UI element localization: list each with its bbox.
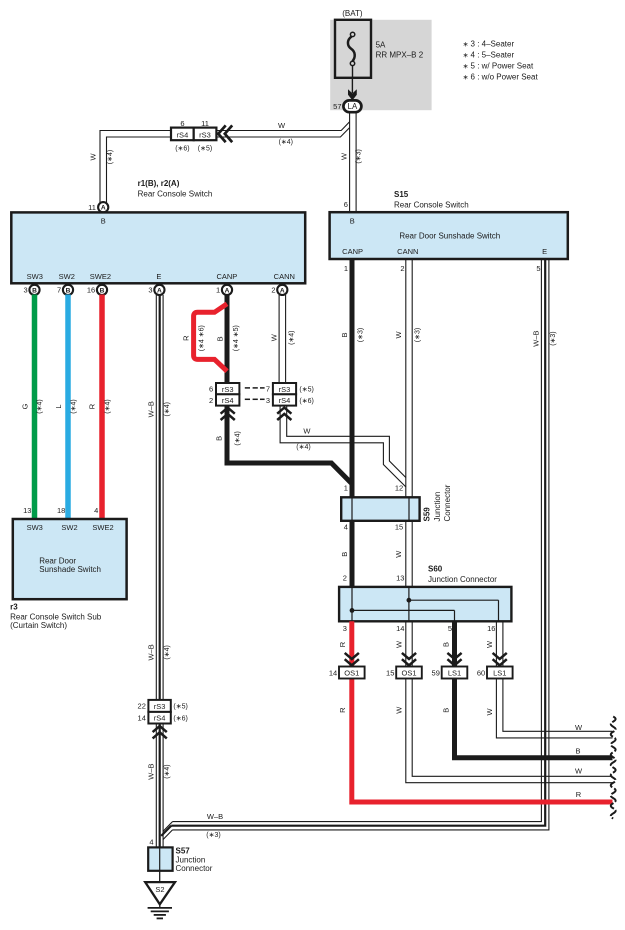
svg-text:(∗4): (∗4) [164, 764, 171, 778]
svg-text:3: 3 [343, 624, 347, 633]
svg-text:R: R [338, 707, 347, 713]
svg-text:Sunshade Switch: Sunshade Switch [39, 565, 101, 574]
svg-text:RR MPX–B 2: RR MPX–B 2 [376, 51, 424, 60]
svg-text:2: 2 [209, 396, 213, 405]
svg-text:SWE2: SWE2 [92, 523, 113, 532]
svg-text:B: B [442, 708, 451, 713]
svg-text:Connector: Connector [176, 864, 213, 873]
svg-text:A: A [225, 287, 230, 294]
svg-text:SWE2: SWE2 [90, 272, 111, 281]
svg-text:2: 2 [343, 574, 347, 583]
fuse 5A RR MPX-B 2 [335, 20, 424, 79]
svg-text:7: 7 [57, 286, 61, 295]
svg-text:(∗3): (∗3) [414, 328, 421, 342]
wire W from S60 pin 14 down and right [406, 621, 613, 782]
svg-text:Junction Connector: Junction Connector [428, 575, 497, 584]
connector rS4 pin 14 [138, 712, 188, 724]
svg-text:CANP: CANP [342, 247, 363, 256]
svg-text:r3: r3 [10, 602, 18, 611]
svg-text:W: W [270, 333, 279, 341]
connector rS3 pin 22 [138, 700, 188, 712]
svg-text:W: W [485, 640, 494, 648]
wire W-B from S15 pin 5 down [171, 259, 549, 830]
svg-text:∗ 4 : 5–Seater: ∗ 4 : 5–Seater [463, 51, 515, 60]
break squiggle over wire ends [611, 717, 616, 819]
svg-text:B: B [340, 552, 349, 557]
bottom pin labels inside r1 box [27, 272, 295, 281]
svg-text:W: W [303, 427, 311, 436]
svg-text:S59: S59 [423, 507, 432, 522]
svg-text:B: B [101, 217, 106, 226]
junction of horizontal W-B into vertical near S57 [161, 822, 172, 840]
connector rS3 pin 7 [266, 383, 314, 394]
svg-text:rS4: rS4 [279, 396, 291, 405]
svg-text:OS1: OS1 [401, 669, 416, 678]
chevrons down above OS1/LS1 [345, 653, 359, 665]
connector OS1 pin 15 [386, 667, 422, 679]
svg-text:rS4: rS4 [222, 396, 234, 405]
svg-text:SW3: SW3 [27, 272, 43, 281]
svg-text:B: B [100, 287, 105, 294]
arrow from fuse to connector LA [351, 78, 353, 93]
svg-text:Connector: Connector [443, 484, 452, 521]
svg-text:R: R [181, 335, 190, 341]
svg-text:(Curtain Switch): (Curtain Switch) [10, 621, 67, 630]
svg-text:6: 6 [344, 200, 348, 209]
chevron left [218, 125, 232, 142]
connector rS4 pin 6 [171, 119, 194, 152]
svg-text:R: R [88, 403, 97, 409]
svg-text:2: 2 [400, 264, 404, 273]
dashes between connector stacks [245, 388, 265, 399]
svg-text:W: W [485, 708, 494, 716]
svg-text:4: 4 [94, 506, 98, 515]
wire W down, right, diagonal into CANN trunk [280, 406, 406, 487]
svg-text:(∗4): (∗4) [107, 150, 114, 164]
svg-text:∗ 3 : 4–Seater: ∗ 3 : 4–Seater [463, 39, 515, 48]
svg-text:1: 1 [344, 483, 348, 492]
svg-text:Rear Door Sunshade Switch: Rear Door Sunshade Switch [399, 231, 500, 240]
connector rS4 pin 3 [266, 394, 314, 405]
svg-text:W–B: W–B [146, 401, 155, 417]
wire B down and right to S59 [227, 406, 352, 484]
svg-text:Rear Console Switch: Rear Console Switch [394, 200, 469, 209]
wire L blue SW2 to r3 [65, 295, 71, 520]
wire R red SWE2 to r3 [99, 295, 105, 520]
svg-text:(BAT): (BAT) [342, 9, 363, 18]
svg-text:rS3: rS3 [199, 130, 211, 139]
svg-text:(∗5): (∗5) [173, 704, 187, 711]
svg-text:11: 11 [88, 203, 96, 212]
svg-text:∗ 6 : w/o Power Seat: ∗ 6 : w/o Power Seat [463, 73, 539, 82]
svg-text:SW2: SW2 [59, 272, 75, 281]
svg-text:R: R [338, 641, 347, 647]
junction connector S59 [341, 497, 419, 521]
svg-text:6: 6 [209, 385, 213, 394]
svg-text:(∗4): (∗4) [164, 645, 171, 659]
wire W S59 to S60 [406, 521, 412, 587]
svg-text:14: 14 [329, 669, 337, 678]
svg-text:W: W [339, 152, 348, 160]
svg-text:CANN: CANN [274, 272, 295, 281]
svg-text:(∗4): (∗4) [288, 330, 295, 344]
wire R from S60 pin 3 down and right [352, 621, 613, 802]
svg-text:5A: 5A [376, 41, 386, 50]
svg-text:B: B [350, 217, 355, 226]
svg-text:(∗4): (∗4) [105, 399, 112, 413]
svg-text:4: 4 [344, 523, 348, 532]
svg-text:S57: S57 [176, 847, 191, 856]
wire W from LA down to S15 pin 6 [350, 112, 357, 212]
wire B trunk from S15 CANP to S59 [350, 259, 355, 497]
svg-text:(∗6): (∗6) [173, 716, 187, 723]
svg-text:W–B: W–B [146, 763, 155, 779]
svg-text:A: A [157, 287, 162, 294]
svg-text:16: 16 [487, 624, 495, 633]
wire W-B continues below rS4 [156, 724, 163, 848]
legend notes [463, 39, 539, 81]
battery supply gray area [330, 20, 431, 110]
svg-text:W: W [89, 153, 98, 161]
wire W from S60 pin 16 down and right [496, 621, 612, 738]
connector rS4 pin 2 [209, 394, 239, 405]
svg-text:rS4: rS4 [154, 714, 166, 723]
pin 11 circle A of r1 [98, 202, 108, 212]
svg-text:rS3: rS3 [154, 702, 166, 711]
chevron up below rS4 pin 3 [277, 408, 291, 420]
svg-text:E: E [542, 247, 547, 256]
svg-text:(∗3): (∗3) [550, 331, 557, 345]
svg-text:r1(B), r2(A): r1(B), r2(A) [138, 179, 180, 188]
svg-text:B: B [66, 287, 71, 294]
svg-text:22: 22 [138, 702, 146, 711]
svg-text:(∗3): (∗3) [206, 832, 220, 839]
svg-text:6: 6 [180, 119, 184, 128]
svg-text:(∗3): (∗3) [357, 328, 364, 342]
svg-text:LS1: LS1 [448, 669, 461, 678]
svg-text:14: 14 [138, 714, 146, 723]
svg-text:1: 1 [216, 286, 220, 295]
connector LA pin 57 [333, 100, 361, 112]
svg-text:(∗3): (∗3) [355, 149, 362, 163]
svg-text:OS1: OS1 [344, 669, 359, 678]
svg-text:14: 14 [396, 624, 404, 633]
junction connector S60 [339, 587, 511, 621]
svg-text:E: E [156, 272, 161, 281]
svg-text:15: 15 [386, 669, 394, 678]
connector rS3 pin 11 [194, 119, 217, 152]
svg-text:B: B [215, 436, 224, 441]
svg-text:W: W [575, 723, 583, 732]
svg-text:rS4: rS4 [177, 130, 189, 139]
wire W-B from r1 pin E down [156, 295, 163, 700]
connector OS1 pin 14 [329, 667, 365, 679]
svg-text:SW2: SW2 [61, 523, 77, 532]
svg-text:W: W [395, 706, 404, 714]
svg-text:W: W [394, 550, 403, 558]
svg-text:(∗4 ∗5): (∗4 ∗5) [233, 325, 240, 351]
box r3 Rear Door Sunshade Switch [13, 519, 127, 599]
svg-text:A: A [101, 205, 106, 212]
svg-text:60: 60 [477, 669, 485, 678]
svg-text:18: 18 [57, 506, 65, 515]
svg-text:2: 2 [271, 286, 275, 295]
svg-text:S15: S15 [394, 190, 409, 199]
wire G green SW3 to r3 [32, 295, 38, 520]
chevron up below rS4 [153, 726, 167, 738]
svg-text:11: 11 [201, 119, 209, 128]
svg-text:7: 7 [266, 385, 270, 394]
svg-text:13: 13 [396, 574, 404, 583]
wire B from S60 pin 5 down and right [455, 621, 613, 757]
svg-text:(∗4): (∗4) [296, 444, 310, 451]
svg-text:3: 3 [148, 286, 152, 295]
red loop wire R on CANP [194, 304, 227, 371]
svg-text:S60: S60 [428, 565, 443, 574]
svg-text:SW3: SW3 [27, 523, 43, 532]
svg-text:S2: S2 [155, 885, 164, 894]
box r1/r2 Rear Console Switch [11, 212, 305, 283]
svg-text:R: R [576, 790, 582, 799]
wire W branch from LA to rS3/rS4 and r1 pin 11 [100, 122, 350, 204]
svg-text:LA: LA [348, 102, 358, 111]
svg-text:B: B [340, 332, 349, 337]
bottom pin circles of r1 box [24, 285, 288, 295]
svg-text:W: W [394, 331, 403, 339]
svg-text:59: 59 [432, 669, 440, 678]
connector LS1 pin 59 [432, 667, 468, 679]
chevron up below rS4 pin 2 [221, 408, 235, 420]
svg-text:W: W [575, 767, 583, 776]
svg-text:B: B [442, 642, 451, 647]
svg-text:rS3: rS3 [279, 385, 291, 394]
svg-text:Junction: Junction [433, 492, 442, 522]
wire B S59 to S60 [350, 521, 355, 587]
connector rS3 pin 6 [209, 383, 239, 394]
svg-text:(∗4): (∗4) [234, 431, 241, 445]
svg-text:W–B: W–B [531, 330, 540, 346]
svg-text:A: A [280, 287, 285, 294]
wire W from r1 CANN down [279, 295, 286, 383]
svg-text:(∗4): (∗4) [71, 399, 78, 413]
svg-text:5: 5 [448, 624, 452, 633]
svg-text:3: 3 [266, 396, 270, 405]
svg-text:CANN: CANN [397, 247, 418, 256]
svg-text:(∗4): (∗4) [279, 139, 293, 146]
svg-text:5: 5 [536, 264, 540, 273]
svg-text:W: W [395, 640, 404, 648]
svg-text:rS3: rS3 [222, 385, 234, 394]
svg-text:(∗6): (∗6) [175, 146, 189, 153]
svg-text:W–B: W–B [146, 644, 155, 660]
svg-text:B: B [32, 287, 37, 294]
wire to ground [159, 871, 161, 882]
svg-text:3: 3 [24, 286, 28, 295]
svg-text:1: 1 [344, 264, 348, 273]
svg-text:(∗4 ∗6): (∗4 ∗6) [198, 325, 205, 351]
svg-text:(∗4): (∗4) [164, 402, 171, 416]
svg-text:W–B: W–B [207, 812, 223, 821]
svg-text:(∗5): (∗5) [198, 146, 212, 153]
svg-text:∗ 5 : w/ Power Seat: ∗ 5 : w/ Power Seat [463, 62, 534, 71]
connector LS1 pin 60 [477, 667, 513, 679]
svg-text:W: W [278, 121, 286, 130]
svg-text:(∗6): (∗6) [299, 398, 313, 405]
svg-text:B: B [575, 746, 580, 755]
svg-text:G: G [21, 403, 30, 409]
svg-text:CANP: CANP [216, 272, 237, 281]
svg-text:B: B [215, 336, 224, 341]
svg-text:4: 4 [149, 837, 153, 846]
svg-text:16: 16 [87, 286, 95, 295]
svg-text:12: 12 [395, 483, 403, 492]
svg-text:Rear Console Switch: Rear Console Switch [138, 189, 213, 198]
svg-text:57: 57 [333, 102, 341, 111]
svg-text:LS1: LS1 [493, 669, 506, 678]
svg-text:L: L [54, 404, 63, 408]
svg-text:13: 13 [23, 506, 31, 515]
junction connector S57 [148, 847, 213, 874]
svg-text:15: 15 [395, 523, 403, 532]
ground S2 [145, 882, 175, 918]
box S15 Rear Door Sunshade Switch [330, 212, 568, 259]
svg-text:(∗5): (∗5) [299, 387, 313, 394]
wire W trunk from S15 CANN to S59 [406, 259, 412, 497]
svg-text:(∗4): (∗4) [37, 399, 44, 413]
wire B from r1 CANP down [225, 295, 230, 383]
